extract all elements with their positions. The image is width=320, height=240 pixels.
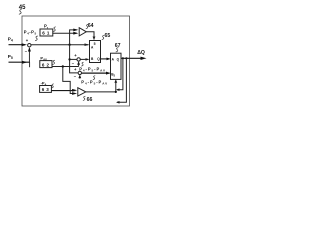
summing node S2 xyxy=(77,58,80,61)
wire PAV up into S2 minus xyxy=(78,63,80,67)
feedback wire fb2 xyxy=(117,58,126,102)
leader squiggle P4-P5 xyxy=(35,36,38,41)
wire 61 to comparator 64 xyxy=(52,32,76,34)
leader squiggle line1 xyxy=(81,62,83,66)
svg-text:65: 65 xyxy=(105,33,111,39)
leader squiggle 62 xyxy=(53,60,56,64)
wire 66 output to 67 Bs xyxy=(86,81,116,92)
arrowhead into 67 B xyxy=(106,72,111,75)
svg-text:62: 62 xyxy=(42,62,51,67)
leader squiggle 61 xyxy=(53,27,56,32)
leader squiggle 64 xyxy=(86,24,89,28)
leader squiggle 65 xyxy=(102,35,105,39)
leader squiggle 45 xyxy=(19,10,22,15)
wire P5 to S1 minus xyxy=(28,48,30,62)
latch box 67 xyxy=(111,53,122,79)
outer block boundary 45 xyxy=(22,16,130,106)
comparator 64 triangle xyxy=(79,28,86,36)
arrowhead into S1 bottom xyxy=(28,47,31,52)
arrowhead fb1 xyxy=(116,88,120,91)
wire S2 output to selector B xyxy=(80,58,88,60)
wire into S3 minus from below xyxy=(79,76,81,79)
junction dot S2 branch xyxy=(68,58,70,60)
wire PAV zigzag to 66 in2 xyxy=(63,67,76,94)
arrowhead into selector A xyxy=(85,43,90,46)
leader squiggle 67 xyxy=(116,48,119,52)
arrowhead into S2 bottom xyxy=(77,61,80,65)
feedback wire fb1 xyxy=(117,58,123,89)
riser wire to 64 in2 xyxy=(70,30,77,45)
arrowhead into 67 A xyxy=(107,58,111,61)
arrowhead into S3 bottom xyxy=(78,75,81,79)
leader squiggle 66 xyxy=(83,96,86,100)
arrowhead into 67 bottom xyxy=(114,79,117,83)
arrowhead fb2 xyxy=(116,101,120,104)
box 63 xyxy=(40,86,52,93)
riser wire down to summers xyxy=(70,45,78,73)
junction dot PAV drop xyxy=(62,65,64,67)
wire 67 Q output xyxy=(121,57,143,59)
arrowhead 66 in1 xyxy=(72,89,77,92)
arrowhead 66 in2 xyxy=(72,92,77,95)
svg-text:64: 64 xyxy=(88,23,94,29)
arrowhead into selector B xyxy=(86,58,90,61)
svg-text:63: 63 xyxy=(42,87,51,92)
arrowhead P5 xyxy=(22,61,28,64)
wire riser branch to S2 xyxy=(70,58,77,60)
selector box 65 xyxy=(90,41,101,63)
wire 63 to comparator 66 xyxy=(51,90,75,92)
box 61 xyxy=(40,29,53,36)
wire S3 output to 67 B (thick) xyxy=(82,72,110,74)
svg-text:5: 5 xyxy=(94,42,96,46)
box 62 xyxy=(40,61,52,68)
wire 65 Q to 67 A xyxy=(101,58,110,60)
junction dot fb1 xyxy=(122,57,124,59)
arrowhead output dQ xyxy=(141,57,147,60)
svg-text:61: 61 xyxy=(42,31,51,36)
comparator 66 triangle xyxy=(78,88,86,96)
junction dot riser xyxy=(68,44,70,46)
arrowhead 64 in1 xyxy=(73,32,78,35)
arrowhead 64 in2 xyxy=(73,29,78,32)
junction dot 66 riser xyxy=(115,91,117,93)
summing node S1 xyxy=(28,44,31,47)
svg-text:66: 66 xyxy=(87,97,93,103)
wire S1 output to selector A xyxy=(31,44,89,46)
summing node S3 xyxy=(78,71,81,74)
arrowhead into selector top xyxy=(93,37,96,41)
svg-text:67: 67 xyxy=(115,43,121,49)
leader squiggle line2 xyxy=(93,76,95,80)
wire P4 input xyxy=(9,44,26,46)
wire 62 output PAV xyxy=(52,66,79,68)
junction dot fb2 xyxy=(125,57,127,59)
leader squiggle 63 xyxy=(51,84,54,88)
wire P5 stub down xyxy=(29,62,31,67)
wire P5 input xyxy=(9,61,30,63)
svg-text:ΔQ: ΔQ xyxy=(137,50,145,56)
wire 64 output to selector S xyxy=(86,32,94,40)
arrowhead P4 xyxy=(22,43,28,46)
